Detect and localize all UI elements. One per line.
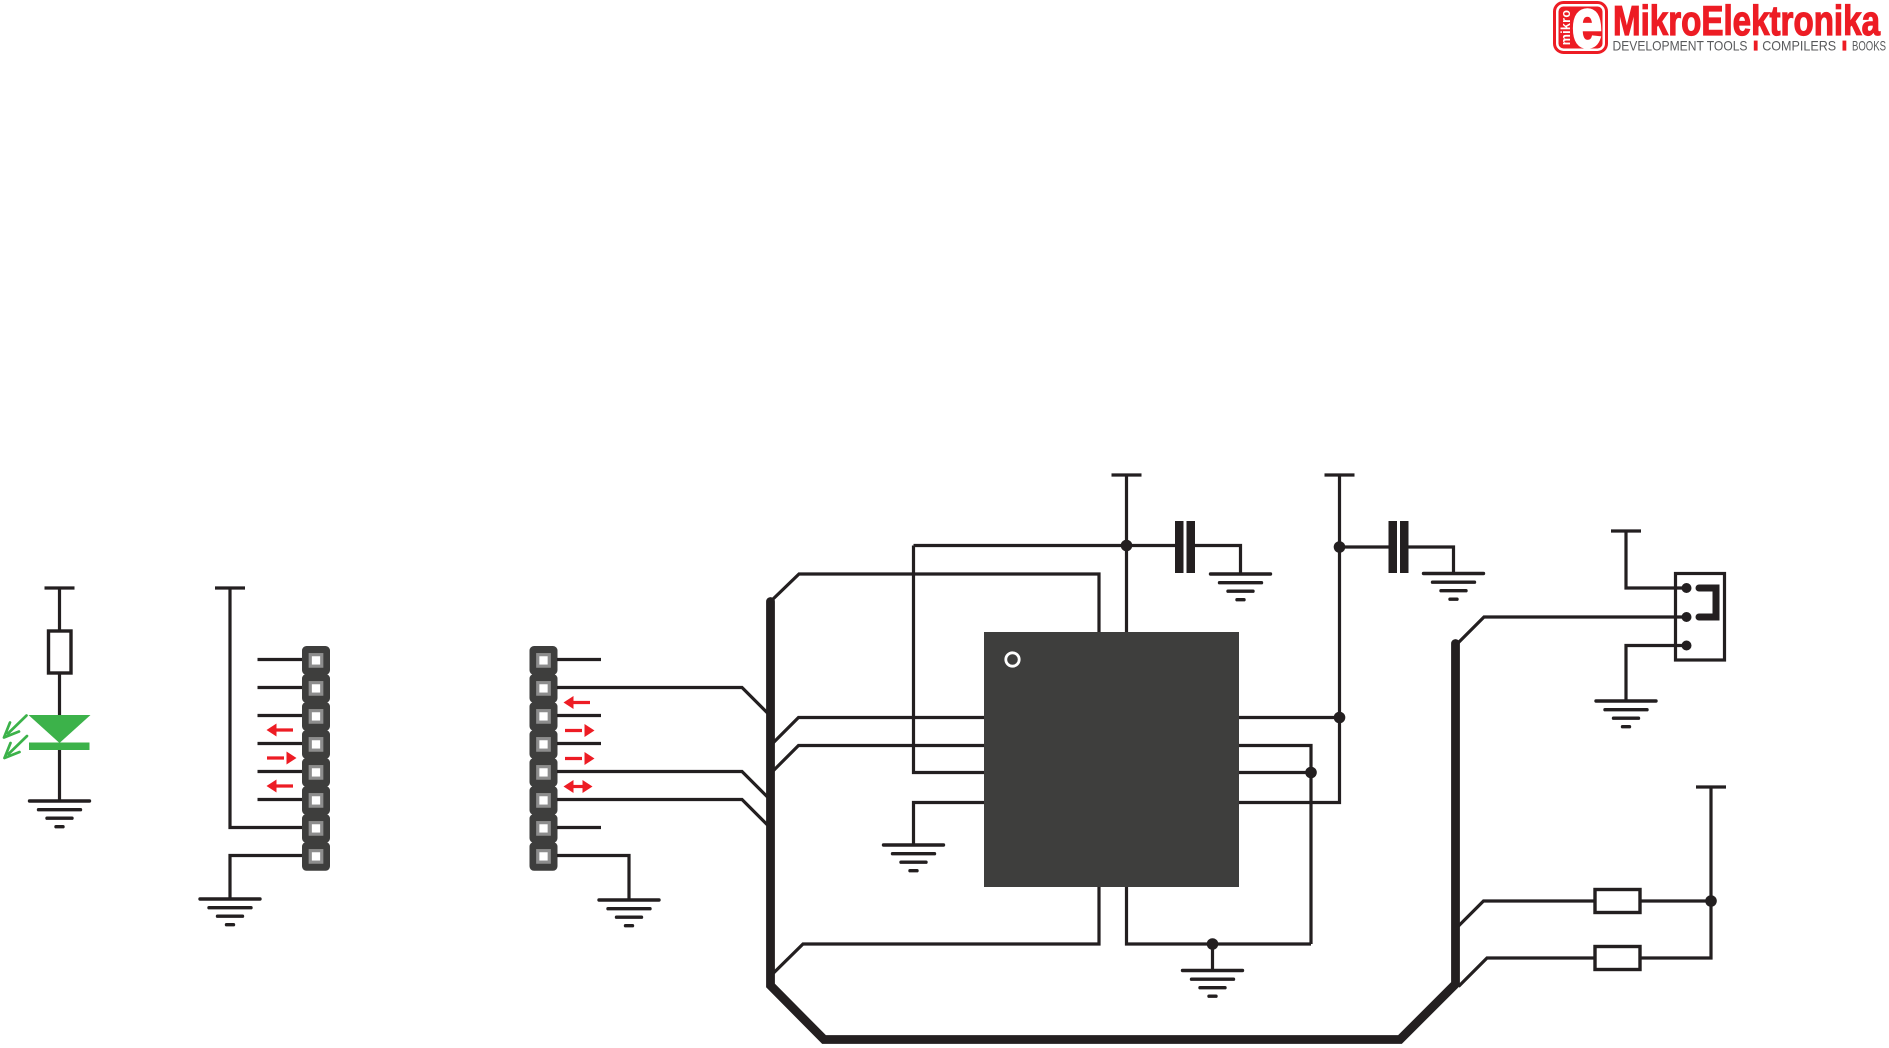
junction dot C1 — [1121, 540, 1133, 552]
wire J1 pin5 stub — [258, 770, 303, 773]
wire C2 to ground — [1409, 547, 1454, 574]
ground IC bottom — [1183, 971, 1243, 997]
resistor R2 — [1595, 947, 1640, 970]
wire routing top (net B): vertical x913.5 to IC pin L3 — [914, 546, 985, 773]
junction dot R1 net — [1334, 712, 1346, 724]
wire C2 junction to plates — [1340, 545, 1389, 548]
wire VCC to CN1 pin1 — [1626, 531, 1687, 588]
svg-text:DEVELOPMENT TOOLS: DEVELOPMENT TOOLS — [1613, 38, 1748, 54]
VCC T-bar R net — [1696, 785, 1726, 788]
wire C1 to ground — [1195, 546, 1241, 575]
wire CN1 pin3 to ground — [1626, 646, 1687, 702]
wire J2 pin8 to ground — [557, 856, 629, 901]
wire bus top to IC top (net A) — [771, 574, 1100, 632]
wire R1 left to bus — [1456, 901, 1596, 929]
wire IC pin R3 — [1239, 771, 1311, 774]
arrow left J2 a — [564, 696, 591, 709]
ground CN1 — [1596, 701, 1656, 727]
wire J1 pin3 stub — [258, 714, 303, 717]
wire VCC down through C2 junction to IC pin R4 — [1239, 475, 1340, 803]
VCC T-bar connector CN1 — [1611, 529, 1641, 532]
junction dot C2 — [1334, 541, 1346, 553]
header J2 body (8-pin) — [530, 646, 558, 871]
wire IC pin R1 to C2 net — [1239, 716, 1340, 719]
wire CN1 pin2 to bus — [1456, 617, 1687, 645]
junction dot R3 net — [1305, 767, 1317, 779]
ground LED — [30, 801, 90, 827]
wire VCC down to R2 — [1640, 787, 1711, 958]
arrow right J2 c — [565, 752, 595, 765]
wire J1 pin6 stub — [258, 798, 303, 801]
VCC T-bar header J1 — [215, 586, 245, 589]
wire junction to ground — [1211, 944, 1214, 971]
wire VCC to C1 junction and IC top pin — [1125, 475, 1128, 632]
jumper CN1 pins 1-2 — [1699, 588, 1716, 617]
LED emission arrows — [4, 716, 27, 759]
svg-text:BOOKS: BOOKS — [1852, 38, 1886, 54]
arrow left J1 a — [267, 724, 294, 737]
wire bus to IC pin L1 — [771, 718, 985, 746]
svg-text:mikro: mikro — [1559, 10, 1573, 46]
capacitor C1 plates — [1175, 521, 1195, 573]
wire R1 right to VCC net — [1640, 899, 1711, 902]
wire J2 pin3 stub — [557, 714, 601, 717]
wire J2 pin5 to bus — [557, 772, 771, 801]
wire IC pin R2 corner down — [1239, 746, 1311, 945]
arrow right J1 b — [267, 752, 297, 765]
junction dot bottom gnd — [1207, 938, 1219, 950]
VCC T-bar LED — [45, 586, 75, 589]
wire IC bottom pin to net R2 — [1127, 887, 1312, 944]
wire bus to IC pin L2 — [771, 746, 985, 774]
wire J2 pin1 stub — [557, 658, 601, 661]
svg-text:COMPILERS: COMPILERS — [1762, 38, 1836, 54]
IC U1 — [984, 632, 1239, 887]
ground header J1 — [200, 899, 260, 925]
MikroElektronika logo — [1555, 0, 1887, 63]
wire VCC to resistor — [58, 588, 61, 631]
wire J2 pin2 to bus — [557, 688, 771, 717]
VCC T-bar C1 — [1112, 473, 1142, 476]
wire J2 pin7 stub — [557, 826, 601, 829]
wire J1 pin1 stub — [258, 658, 303, 661]
arrow left J1 c — [267, 780, 294, 793]
wire IC left pin L4 to ground — [914, 803, 985, 846]
wire net B horizontal to C1 junction — [914, 544, 1176, 547]
ground C1 — [1211, 574, 1271, 600]
connector CN1 body — [1676, 574, 1725, 661]
resistor R1 — [1595, 890, 1640, 913]
wire LED to ground — [58, 750, 61, 801]
junction dot R1 right — [1705, 895, 1717, 907]
svg-text:e: e — [1572, 0, 1602, 63]
ground header J2 — [599, 900, 659, 926]
capacitor C2 plates — [1389, 521, 1409, 573]
wire bus to IC bottom left — [771, 887, 1100, 976]
GND bus (thick) — [771, 602, 1456, 1040]
wire R2 left to bus — [1459, 958, 1596, 987]
resistor R (LED series) — [49, 631, 72, 673]
wire J1 pin4 stub — [258, 742, 303, 745]
wire J2 pin4 stub — [557, 742, 601, 745]
wire J1 pin8 to ground — [230, 856, 302, 900]
wire VCC down to J1 pin7 — [230, 588, 302, 828]
ground IC left — [884, 845, 944, 871]
ground C2 — [1424, 574, 1484, 600]
LED D1 green — [29, 715, 91, 750]
header J1 body (8-pin) — [302, 646, 330, 871]
arrow right J2 b — [565, 724, 595, 737]
wire resistor to LED — [58, 673, 61, 716]
wire J1 pin2 stub — [258, 686, 303, 689]
arrow bidir J2 d — [564, 780, 593, 793]
wire J2 pin6 to bus — [557, 800, 771, 829]
VCC T-bar C2 — [1325, 473, 1355, 476]
